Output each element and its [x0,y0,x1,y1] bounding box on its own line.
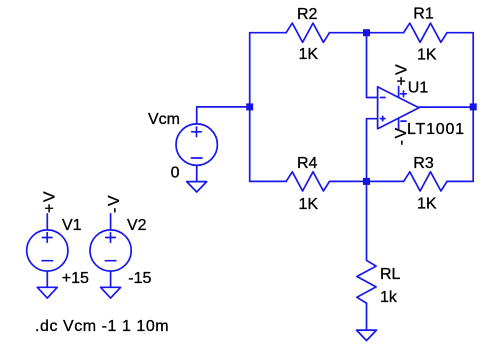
svg-text:1k: 1k [380,289,398,306]
node junction left rail [246,103,253,110]
svg-text:LT1001: LT1001 [407,121,465,138]
svg-text:1K: 1K [299,196,319,213]
svg-text:+V: +V [393,63,410,86]
wire left vertical rail [249,33,251,182]
ground below V2 [101,287,121,298]
svg-text:1K: 1K [417,196,437,213]
net flag V- below op-amp [393,126,410,145]
ground below V1 [37,287,57,298]
node junction op-amp output [470,103,477,110]
svg-text:R1: R1 [413,6,434,23]
svg-text:-V: -V [106,194,123,213]
node junction top row [363,29,370,36]
resistor R3 [404,172,447,191]
voltage source Vcm [176,124,217,182]
label U1 [408,80,429,97]
wire top row right segment [447,32,473,34]
svg-text:U1: U1 [408,80,429,97]
label V1 value +15 [62,270,89,287]
net flag V- above V2 [106,194,123,213]
svg-text:R4: R4 [297,155,318,172]
label R1 [413,6,434,23]
voltage source V2 [90,214,131,287]
svg-text:RL: RL [380,266,401,283]
resistor R2 [286,23,329,42]
label R3 [413,155,434,172]
resistor RL [357,260,376,303]
svg-text:-V: -V [393,126,410,145]
svg-text:.dc Vcm -1 1 10m: .dc Vcm -1 1 10m [35,318,169,335]
wire top row left segment [250,32,286,34]
resistor R1 [404,23,447,42]
svg-text:R2: R2 [297,6,318,23]
svg-text:+15: +15 [62,270,89,287]
op-amp U1 [378,87,419,130]
net flag V+ above op-amp [393,63,410,86]
label V2 [127,217,147,234]
label Vcm value 0 [171,164,180,181]
label R3 value 1K [417,196,437,213]
node junction bottom row [363,178,370,185]
voltage source V1 [27,214,68,287]
wire Vcm to left rail [197,107,250,124]
label R1 value 1K [417,46,437,63]
svg-text:V2: V2 [127,217,147,234]
label R4 value 1K [299,196,319,213]
label U1 value LT1001 [407,121,465,138]
svg-text:1K: 1K [417,46,437,63]
label Vcm [148,111,180,128]
label RL value 1k [380,289,398,306]
wire right vertical rail [472,33,474,182]
svg-text:Vcm: Vcm [148,111,180,128]
wire RL to ground [366,303,368,330]
svg-text:-15: -15 [128,270,151,287]
resistor R4 [286,172,329,191]
wire bottom row middle segment [330,180,404,182]
label R2 [297,6,318,23]
ground below Vcm [187,182,207,192]
label R4 [297,155,318,172]
wire inverting input [367,33,378,98]
ground below RL [357,330,377,340]
spice directive .dc [35,318,169,335]
svg-text:0: 0 [171,164,180,181]
wire node to RL [366,181,368,260]
net flag V+ above V1 [42,190,59,213]
label V2 value -15 [128,270,151,287]
svg-text:1K: 1K [299,46,319,63]
svg-text:R3: R3 [413,155,434,172]
label RL [380,266,401,283]
wire top row middle segment [330,32,404,34]
wire bottom row left segment [250,180,286,182]
label R2 value 1K [299,46,319,63]
label V1 [62,217,82,234]
svg-text:V1: V1 [62,217,82,234]
wire bottom row right segment [447,180,473,182]
wire noninverting input [367,119,378,182]
svg-text:+V: +V [42,190,59,213]
wire op-amp output [419,106,473,108]
